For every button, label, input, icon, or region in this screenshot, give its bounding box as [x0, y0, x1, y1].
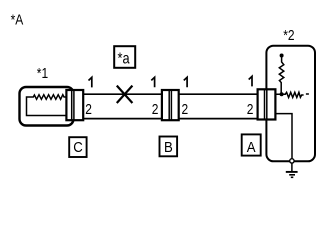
svg-text:*a: *a — [118, 50, 131, 68]
svg-text:2: 2 — [182, 101, 189, 118]
svg-text:*1: *1 — [37, 65, 48, 82]
svg-text:C: C — [73, 138, 83, 155]
svg-text:A: A — [247, 138, 256, 155]
svg-text:2: 2 — [152, 101, 159, 118]
svg-text:2: 2 — [85, 101, 92, 118]
svg-text:2: 2 — [247, 101, 254, 118]
svg-text:B: B — [164, 138, 173, 155]
svg-text:*A: *A — [11, 11, 25, 28]
svg-text:*2: *2 — [283, 27, 294, 44]
